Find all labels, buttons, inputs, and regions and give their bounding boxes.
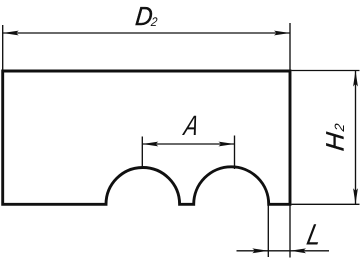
dimension line D2: [3, 32, 290, 34]
label A: [180, 110, 201, 142]
dimension line H2: [355, 71, 357, 205]
arrowhead A left: [142, 142, 158, 147]
arrowhead H2 top: [353, 71, 358, 87]
dimension line L right tail: [290, 250, 329, 252]
extension line A right: [234, 136, 236, 170]
arrowhead L right (outside, pointing left): [290, 248, 306, 253]
extension line A left: [141, 137, 143, 169]
extension line D2 left: [2, 25, 4, 70]
arrowhead D2 right: [274, 31, 290, 36]
dimension line L span: [268, 250, 290, 252]
dimension line A: [142, 143, 234, 145]
arrowhead H2 bottom: [353, 188, 358, 204]
label L: [304, 218, 325, 251]
label D2: [134, 3, 159, 31]
extension line D2 right: [289, 23, 291, 70]
arrowhead A right: [219, 142, 235, 147]
extension line H2 bottom: [292, 203, 360, 205]
arrowhead D2 left: [3, 31, 19, 36]
extension line H2 top: [292, 70, 360, 72]
part outline: rectangular block with two semicircular notches: [3, 71, 290, 204]
arrowhead L left (outside, pointing right): [252, 248, 268, 253]
extension line L right: [289, 205, 291, 258]
dimension line L left tail: [237, 250, 269, 252]
label H2 rotated: [322, 121, 350, 152]
extension line L left: [267, 205, 269, 257]
